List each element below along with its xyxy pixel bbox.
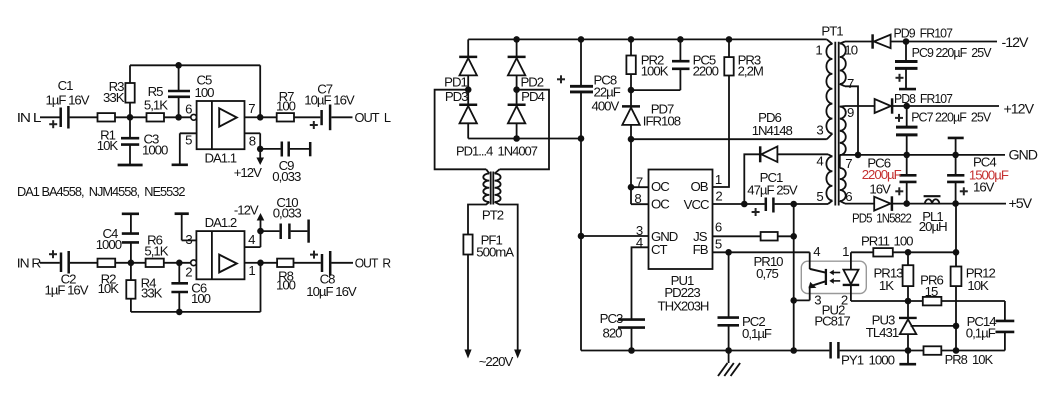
svg-text:2: 2 bbox=[715, 189, 722, 204]
svg-text:PD1: PD1 bbox=[444, 75, 467, 90]
svg-text:1N4148: 1N4148 bbox=[752, 123, 793, 138]
svg-text:10K: 10K bbox=[97, 138, 119, 153]
svg-text:6: 6 bbox=[185, 101, 192, 116]
svg-text:16V: 16V bbox=[973, 180, 995, 195]
svg-text:+5V: +5V bbox=[1009, 196, 1033, 212]
svg-text:FB: FB bbox=[693, 242, 709, 257]
svg-text:7: 7 bbox=[847, 76, 854, 91]
svg-text:PC7 220µF 25V: PC7 220µF 25V bbox=[911, 110, 991, 125]
svg-text:5: 5 bbox=[185, 133, 192, 148]
svg-text:2200µF: 2200µF bbox=[862, 167, 902, 182]
svg-text:0,033: 0,033 bbox=[273, 206, 302, 221]
svg-text:IN L: IN L bbox=[17, 110, 41, 125]
svg-text:-12V: -12V bbox=[1002, 35, 1030, 51]
svg-text:100: 100 bbox=[276, 278, 296, 293]
svg-text:15: 15 bbox=[925, 284, 938, 299]
svg-text:47µF 25V: 47µF 25V bbox=[747, 183, 798, 198]
svg-text:PD8 FR107: PD8 FR107 bbox=[894, 91, 953, 106]
svg-text:1K: 1K bbox=[879, 278, 894, 293]
svg-text:100: 100 bbox=[894, 234, 914, 249]
svg-text:7: 7 bbox=[636, 174, 643, 189]
svg-text:IN R: IN R bbox=[17, 255, 41, 270]
svg-text:8: 8 bbox=[634, 191, 641, 206]
svg-text:0,75: 0,75 bbox=[756, 266, 778, 281]
svg-text:PR11: PR11 bbox=[861, 234, 890, 249]
svg-text:OB: OB bbox=[690, 179, 708, 194]
svg-text:VCC: VCC bbox=[684, 197, 710, 212]
svg-text:PC817: PC817 bbox=[814, 314, 850, 329]
svg-text:0,1µF: 0,1µF bbox=[742, 326, 772, 341]
svg-text:1: 1 bbox=[815, 43, 822, 58]
svg-text:33K: 33K bbox=[141, 285, 163, 300]
svg-text:TL431: TL431 bbox=[866, 325, 899, 340]
svg-text:33K: 33K bbox=[103, 90, 125, 105]
svg-text:10: 10 bbox=[844, 43, 857, 58]
svg-text:1µF 16V: 1µF 16V bbox=[45, 92, 89, 107]
svg-text:CT: CT bbox=[651, 242, 668, 257]
svg-text:5: 5 bbox=[715, 236, 722, 251]
svg-text:OUT L: OUT L bbox=[355, 110, 391, 125]
svg-text:9: 9 bbox=[847, 105, 854, 120]
svg-text:400V: 400V bbox=[592, 99, 620, 114]
svg-text:2200: 2200 bbox=[693, 63, 719, 78]
svg-text:PD9 FR107: PD9 FR107 bbox=[894, 26, 953, 41]
svg-text:PT2: PT2 bbox=[482, 208, 504, 223]
svg-text:DA1.2: DA1.2 bbox=[205, 215, 237, 230]
svg-text:OUT R: OUT R bbox=[355, 255, 391, 270]
svg-text:PR8 10K: PR8 10K bbox=[945, 352, 994, 367]
svg-text:100: 100 bbox=[191, 291, 211, 306]
svg-text:5: 5 bbox=[816, 189, 823, 204]
svg-text:IFR108: IFR108 bbox=[643, 114, 681, 129]
svg-text:1000: 1000 bbox=[96, 237, 122, 252]
svg-text:22µF: 22µF bbox=[594, 85, 621, 100]
svg-text:1000: 1000 bbox=[142, 143, 168, 158]
svg-text:-12V: -12V bbox=[234, 203, 259, 218]
svg-text:GND: GND bbox=[1009, 148, 1038, 164]
svg-text:5,1K: 5,1K bbox=[144, 97, 168, 112]
svg-text:+12V: +12V bbox=[1004, 102, 1035, 118]
svg-text:0,1µF: 0,1µF bbox=[966, 326, 996, 341]
svg-text:PC3: PC3 bbox=[600, 311, 623, 326]
svg-text:3: 3 bbox=[816, 122, 823, 137]
svg-text:3: 3 bbox=[814, 293, 821, 308]
svg-text:10µF 16V: 10µF 16V bbox=[306, 284, 357, 299]
svg-text:10K: 10K bbox=[967, 278, 989, 293]
svg-text:1µF 16V: 1µF 16V bbox=[44, 282, 88, 297]
svg-text:PD4: PD4 bbox=[521, 89, 544, 104]
svg-text:OC: OC bbox=[651, 197, 670, 212]
svg-text:500mA: 500mA bbox=[476, 245, 514, 260]
svg-text:PD2: PD2 bbox=[520, 75, 543, 90]
svg-text:0,033: 0,033 bbox=[272, 169, 301, 184]
svg-text:6: 6 bbox=[715, 220, 722, 235]
svg-text:10K: 10K bbox=[98, 281, 120, 296]
svg-text:PD1...4 1N4007: PD1...4 1N4007 bbox=[456, 143, 538, 158]
svg-text:7: 7 bbox=[845, 156, 852, 171]
svg-text:5,1K: 5,1K bbox=[144, 244, 168, 259]
svg-text:820: 820 bbox=[602, 326, 622, 341]
svg-text:THX203H: THX203H bbox=[658, 299, 709, 314]
svg-text:4: 4 bbox=[248, 232, 255, 247]
svg-text:DA1 BA4558, NJM4558, NE5532: DA1 BA4558, NJM4558, NE5532 bbox=[17, 184, 185, 199]
svg-text:10µF 16V: 10µF 16V bbox=[304, 93, 355, 108]
svg-text:C1: C1 bbox=[58, 78, 74, 93]
svg-text:100: 100 bbox=[195, 85, 215, 100]
svg-text:16V: 16V bbox=[869, 182, 891, 197]
svg-text:DA1.1: DA1.1 bbox=[204, 150, 236, 165]
svg-text:100: 100 bbox=[276, 99, 296, 114]
svg-text:PD3: PD3 bbox=[445, 89, 468, 104]
svg-text:PY1 1000: PY1 1000 bbox=[841, 352, 895, 367]
svg-text:~220V: ~220V bbox=[479, 354, 514, 369]
svg-text:4: 4 bbox=[813, 244, 820, 259]
svg-text:2,2M: 2,2M bbox=[738, 63, 763, 78]
svg-text:3: 3 bbox=[185, 232, 192, 247]
svg-text:8: 8 bbox=[249, 133, 256, 148]
svg-text:7: 7 bbox=[248, 101, 255, 116]
svg-text:1: 1 bbox=[842, 244, 849, 259]
svg-text:PT1: PT1 bbox=[821, 24, 843, 39]
svg-text:20µH: 20µH bbox=[919, 219, 947, 234]
svg-text:OC: OC bbox=[651, 179, 670, 194]
svg-text:1: 1 bbox=[248, 263, 255, 278]
svg-text:PD5 1N5822: PD5 1N5822 bbox=[852, 211, 912, 226]
svg-text:PC9 220µF 25V: PC9 220µF 25V bbox=[912, 45, 992, 60]
svg-text:2: 2 bbox=[185, 264, 192, 279]
svg-text:1: 1 bbox=[715, 172, 722, 187]
svg-text:+12V: +12V bbox=[234, 165, 262, 180]
svg-text:100K: 100K bbox=[641, 63, 669, 78]
svg-text:6: 6 bbox=[845, 189, 852, 204]
svg-text:4: 4 bbox=[816, 153, 823, 168]
